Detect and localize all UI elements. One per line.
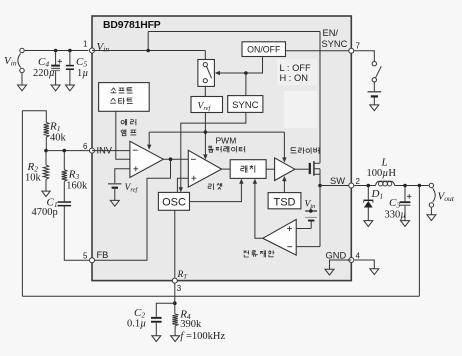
block ON/OFF box (242, 42, 286, 57)
wire INV node to pin6 (46, 150, 89, 152)
svg-text:1: 1 (83, 40, 88, 49)
wire soft start to error amp (116, 111, 130, 159)
wire SYNC to OSC (181, 112, 246, 188)
svg-text:5: 5 (83, 252, 88, 261)
node SW (318, 184, 322, 188)
block TSD box (268, 193, 301, 209)
arrow into error amp (147, 145, 151, 150)
wire L to Vout terminal (395, 185, 429, 187)
label current limit (243, 250, 248, 257)
svg-text:BD9781HFP: BD9781HFP (103, 20, 161, 31)
arrow into switch (215, 71, 220, 75)
ground at C3 (401, 221, 410, 227)
wire feedback right drop (418, 186, 420, 297)
svg-text:FB: FB (97, 250, 109, 260)
transistor Q1 channel (313, 161, 315, 176)
wire pin1 to switch drop (92, 50, 205, 52)
svg-text:4: 4 (356, 251, 361, 260)
wire RT down (174, 284, 176, 314)
battery B1 (368, 91, 382, 92)
error amp minus (133, 149, 138, 151)
op-amp error amp (130, 141, 163, 177)
wire comparator - to SW (296, 246, 320, 248)
terminal Vin- (20, 68, 24, 72)
svg-text:TSD: TSD (274, 197, 296, 209)
node INV divider (44, 149, 48, 153)
svg-text:EN/: EN/ (323, 28, 339, 38)
ground at GND pin (370, 269, 379, 275)
arrow SYNC into OSC (179, 187, 183, 192)
svg-text:40k: 40k (50, 133, 67, 144)
wire left rail (21, 111, 23, 297)
label error amp line1 (121, 119, 127, 125)
switch S1 box (198, 60, 215, 87)
op-amp PWM comparator (188, 150, 221, 187)
capacitor C2 (151, 317, 162, 319)
svg-text:4700p: 4700p (32, 207, 58, 218)
svg-text:ON/OFF: ON/OFF (247, 45, 281, 55)
svg-text:SYNC: SYNC (232, 100, 259, 111)
voltage source Vref (108, 183, 121, 184)
wire Vref rail (149, 131, 284, 133)
wire switch feed (204, 51, 206, 60)
svg-text:10k: 10k (25, 173, 42, 184)
ground at EN battery (370, 105, 379, 111)
wire TSD to driver (283, 179, 285, 192)
pin 5 FB (90, 258, 95, 263)
pin 1 Vin (90, 48, 95, 53)
transistor Q1 gate bar (309, 163, 311, 174)
block soft start box (99, 83, 150, 112)
arrow into driver top (282, 157, 286, 162)
svg-text:7: 7 (356, 42, 361, 51)
ground at C5 (65, 85, 74, 91)
capacitor C5 1u (69, 51, 71, 65)
resistor R4 (172, 314, 177, 326)
svg-text:SW: SW (330, 176, 345, 186)
wire tap to SYNC box (245, 73, 247, 96)
light patch right of SYNC (284, 91, 317, 128)
wire latch to driver (266, 168, 275, 170)
wire drain rail (319, 32, 321, 164)
ground at C2 (152, 336, 161, 342)
ground at D1 (364, 221, 373, 227)
op-amp current limit comparator (263, 219, 296, 255)
svg-text:330µ: 330µ (385, 210, 407, 221)
pin 3 RT (172, 278, 177, 283)
ground at Vref source (110, 200, 119, 206)
node R3 tap (63, 149, 67, 153)
wire error amp + to Vref source (115, 169, 130, 184)
label driver (291, 148, 297, 153)
label error amp line2 (121, 130, 126, 136)
current limit plus (287, 226, 292, 231)
svg-text:GND: GND (326, 250, 347, 260)
svg-text:f =100kHz: f =100kHz (180, 331, 225, 342)
wire feedback bottom rail (22, 295, 419, 297)
resistor R3 (63, 151, 65, 170)
wire SW to pin2 (320, 185, 348, 187)
C4 plus sign (58, 59, 62, 63)
wire OSC to RT (174, 210, 176, 277)
wire pin7 to EN switch (354, 51, 374, 62)
node error amp out (169, 157, 173, 161)
wire PWM to latch (222, 168, 231, 170)
wire error amp out (163, 158, 188, 160)
svg-text:3: 3 (177, 284, 182, 293)
diode D1 (367, 186, 369, 200)
label reset (208, 183, 213, 190)
buffer driver (275, 158, 295, 181)
wire Vin tap stub (310, 208, 312, 212)
pin 6 INV (90, 148, 95, 153)
node C3 tap (403, 184, 407, 188)
wire Vin- to ground (21, 73, 23, 85)
svg-text:160k: 160k (66, 181, 88, 192)
wire driver to gate (295, 168, 309, 170)
wire PWM + to OSC (177, 178, 188, 192)
Vin source bracket (18, 54, 21, 68)
svg-text:L: L (381, 157, 388, 169)
terminal Vout- (429, 203, 433, 207)
svg-text:220µ: 220µ (33, 68, 55, 79)
ground at Vout (427, 215, 436, 221)
PWM plus (191, 176, 196, 181)
capacitor C1 (58, 201, 72, 203)
wire offset to comparator + (296, 228, 311, 230)
wire Q1 source to SW (319, 174, 321, 185)
PWM minus (191, 158, 196, 160)
svg-text:H : ON: H : ON (280, 73, 308, 83)
wire comparator out to latch (255, 182, 263, 238)
wire Vin top rail (148, 31, 320, 33)
svg-text:L : OFF: L : OFF (280, 63, 311, 73)
arrow Vref into PWM (203, 154, 207, 159)
svg-text:6: 6 (83, 142, 88, 151)
transistor Q1 stubs (314, 163, 320, 174)
wire ON/OFF control (217, 57, 263, 74)
capacitor C4 220u (55, 51, 57, 65)
node Vin rail junction (146, 49, 150, 53)
switch S1 contacts (203, 63, 207, 67)
arrow comparator into latch (253, 179, 257, 184)
pin 7 EN/SYNC (349, 48, 354, 53)
node Vout junction (418, 184, 422, 188)
wire SW sense drop (319, 186, 321, 247)
wire Q1 body tie (319, 169, 321, 175)
pin 4 GND (349, 258, 354, 263)
light patch behind L:OFF (277, 59, 317, 85)
wire Vout- to ground (430, 208, 432, 215)
inductor L1 (376, 181, 381, 185)
arrow TSD into driver (282, 176, 286, 181)
svg-text:1µ: 1µ (77, 68, 88, 79)
wire EN switch to battery (373, 82, 375, 91)
wire Vin rail riser (147, 32, 149, 51)
terminal Vout+ (429, 183, 433, 187)
ground at R4 (171, 336, 180, 342)
resistor R1 (44, 122, 49, 137)
wire OSC reset to latch (190, 182, 242, 202)
block SYNC box (228, 96, 263, 113)
capacitor C3 330u (404, 186, 406, 202)
ground at R2 (42, 191, 50, 197)
wire INV to error amp (92, 150, 130, 152)
wire Vin to pin 1 (25, 50, 89, 52)
wire switch to Vref box (204, 86, 206, 96)
label comparator (208, 146, 214, 152)
block OSC box (158, 192, 189, 210)
svg-text:100µH: 100µH (367, 168, 397, 179)
svg-text:OSC: OSC (162, 197, 186, 209)
block Vref box (191, 97, 223, 113)
svg-text:PWM: PWM (216, 135, 237, 145)
wire Vref to driver (283, 132, 285, 159)
wire to C2 (156, 303, 175, 317)
current limit minus (287, 246, 292, 248)
ground internal (325, 269, 334, 275)
label soft start line1 (111, 88, 117, 93)
label soft start line2 (110, 98, 116, 103)
terminal Vin+ (20, 48, 24, 52)
node Vin tap (309, 209, 313, 213)
wire Vref drop (204, 113, 206, 157)
arrow reset into latch (239, 179, 243, 184)
svg-text:390k: 390k (180, 319, 202, 330)
svg-text:0.1µ: 0.1µ (127, 318, 146, 329)
wire GND external (354, 260, 374, 269)
IC U1 BD9781HFP body (92, 16, 351, 281)
svg-text:2: 2 (356, 177, 361, 186)
ground at C4 (51, 85, 60, 91)
wire error amp out to FB (92, 159, 171, 260)
wire SW pin to L (354, 185, 375, 187)
wire feedback top (22, 111, 46, 123)
C3 plus sign (407, 194, 411, 198)
wire GND internal (330, 260, 352, 269)
wire ON/OFF to pin7 (286, 50, 349, 52)
wire Vref to error amp (148, 132, 150, 146)
pin 2 SW (349, 183, 354, 188)
ground at Vin- (18, 85, 27, 91)
node Vref rail junction (204, 130, 208, 134)
node C2 tap (173, 301, 177, 305)
Vout bracket (433, 188, 435, 202)
svg-text:SYNC: SYNC (322, 39, 348, 49)
node C5 junction (68, 49, 72, 53)
EN switch S2 (372, 62, 376, 66)
label latch (241, 165, 247, 172)
node SYNC tap (244, 71, 248, 75)
error amp plus (133, 166, 138, 171)
node C4 junction (54, 49, 58, 53)
node D1 tap (367, 184, 371, 188)
resistor R2 (45, 151, 47, 165)
voltage source Vin offset (305, 210, 317, 211)
block latch box (230, 160, 266, 179)
